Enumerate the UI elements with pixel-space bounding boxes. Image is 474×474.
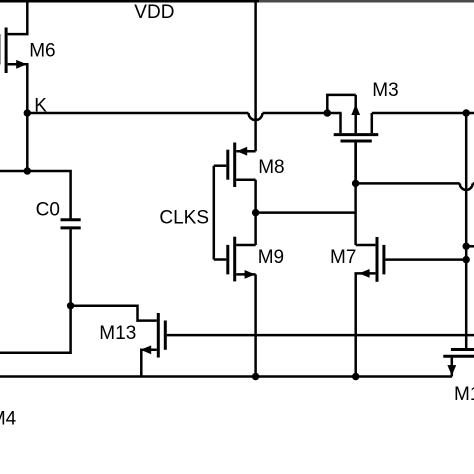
wire node down-left to edge [0,306,71,353]
source lead M9 [236,273,255,276]
wire M8-M9 gate tie (CLKS) [213,166,216,260]
wire left edge to C0 top [0,171,71,219]
svg-text:M3: M3 [372,80,398,101]
node M3 gate junction dot [352,180,359,187]
gate lead M8 [214,164,227,167]
svg-text:M13: M13 [99,323,136,344]
drain lead M8 [236,150,255,153]
gate bar M8 [226,150,229,180]
source lead M8 [236,178,255,181]
capacitor C0 [61,220,81,228]
wire hop under right column [460,183,473,190]
channel bar M6 [5,28,8,74]
node M7 gate junction dot [463,256,470,263]
wire M13 gate line to right edge [167,334,474,337]
transistor M13 [141,313,166,377]
source arrow M6 [16,60,27,69]
source lead M13 [141,350,157,377]
node M3 drain junction dot [324,109,332,117]
wire K down to left node [26,113,29,171]
channel bar M8 [233,143,236,188]
wire C0 bottom down [69,229,72,305]
drain lead M6 [8,1,28,34]
wire mid node to M7 column [256,211,356,214]
wire node to M13 drain [71,306,157,321]
source arrow M8 (PMOS, points at channel) [237,147,248,156]
svg-text:M4: M4 [0,409,17,430]
drain lead M9 [236,244,255,247]
gate bar M9 [226,245,229,275]
wire stub to right edge [466,245,474,248]
svg-text:M6: M6 [29,40,55,61]
wire M3 gate column down to M7 drain [354,143,357,245]
node right column stub junction dot [463,243,470,250]
drain lead M3 [339,113,342,133]
source lead M6 [8,64,28,113]
svg-text:M9: M9 [258,247,284,268]
channel bar M3 [334,133,379,136]
transistor M14 (cut by right edge, gate up) [443,350,474,377]
gate bar M6 (cut by left edge) [0,34,1,65]
source lead M7 [356,273,376,376]
bulk arrow M3 [351,104,360,115]
wire after hop to right edge [473,182,474,185]
wire VDD rail continuation (gray, cropped figure border) [259,0,474,2]
gate bar M3 [341,140,372,143]
wire M8 source down to mid node [254,180,257,245]
svg-text:M8: M8 [258,157,284,178]
channel bar M14 [443,355,474,358]
transistor M9 [214,237,256,282]
svg-text:VDD: VDD [134,2,174,23]
channel bar M7 [376,237,379,282]
svg-text:M7: M7 [330,247,356,268]
transistor M8 [214,143,256,188]
bulk lead M3 [354,95,357,133]
gate lead M7 [385,258,466,261]
transistor M7 [356,237,467,377]
svg-text:C0: C0 [36,200,60,221]
transistor M3 (diode-connected, gate down) [327,95,378,183]
wire M7 drain lead horizontal [356,244,376,247]
wire right column vertical [465,113,468,348]
wire node K horizontal run (left of hop) [27,112,248,115]
wire VDD rail (top, black left part) [0,0,259,2]
transistor M6 [0,1,27,113]
channel bar M9 [233,237,236,282]
wire M3 source to right column [372,112,474,115]
node junction dot at left wire [24,167,31,174]
gate lead M9 [214,258,227,261]
node junction dot below C0 [67,302,74,309]
node right column top junction dot [463,109,470,116]
channel bar M13 [157,313,160,358]
wire M9 source down to bottom bus [254,274,257,376]
C0 bottom plate [61,226,81,229]
source lead M3 [371,113,374,133]
source lead M14 [451,358,454,377]
wire node K horizontal run (hop to M3 drain) [263,112,342,115]
svg-text:M14: M14 [454,384,474,405]
gate-drain loop M3 [327,95,355,113]
gate bar M14 [451,348,474,351]
wire M3 gate node to right (before hop) [356,182,460,185]
source arrow M14 (points down) [447,365,456,376]
wire hop over center column [249,113,263,120]
gate bar M7 [382,245,385,275]
gate bar M13 [164,321,167,350]
C0 top plate [61,218,81,221]
source arrow M9 (NMOS, points away) [245,270,256,279]
node bus junction dot (M9 column) [252,373,259,380]
node bus junction dot (M7 column) [352,373,359,380]
wire bottom bus [0,375,452,378]
node mid junction dot [252,209,259,216]
wire center column from VDD rail [254,1,257,151]
source arrow M7 (NMOS, points away) [359,269,370,278]
gate lead M3 [354,143,357,184]
source arrow M13 [141,345,152,354]
svg-text:CLKS: CLKS [159,208,209,229]
node K junction dot [24,109,31,116]
